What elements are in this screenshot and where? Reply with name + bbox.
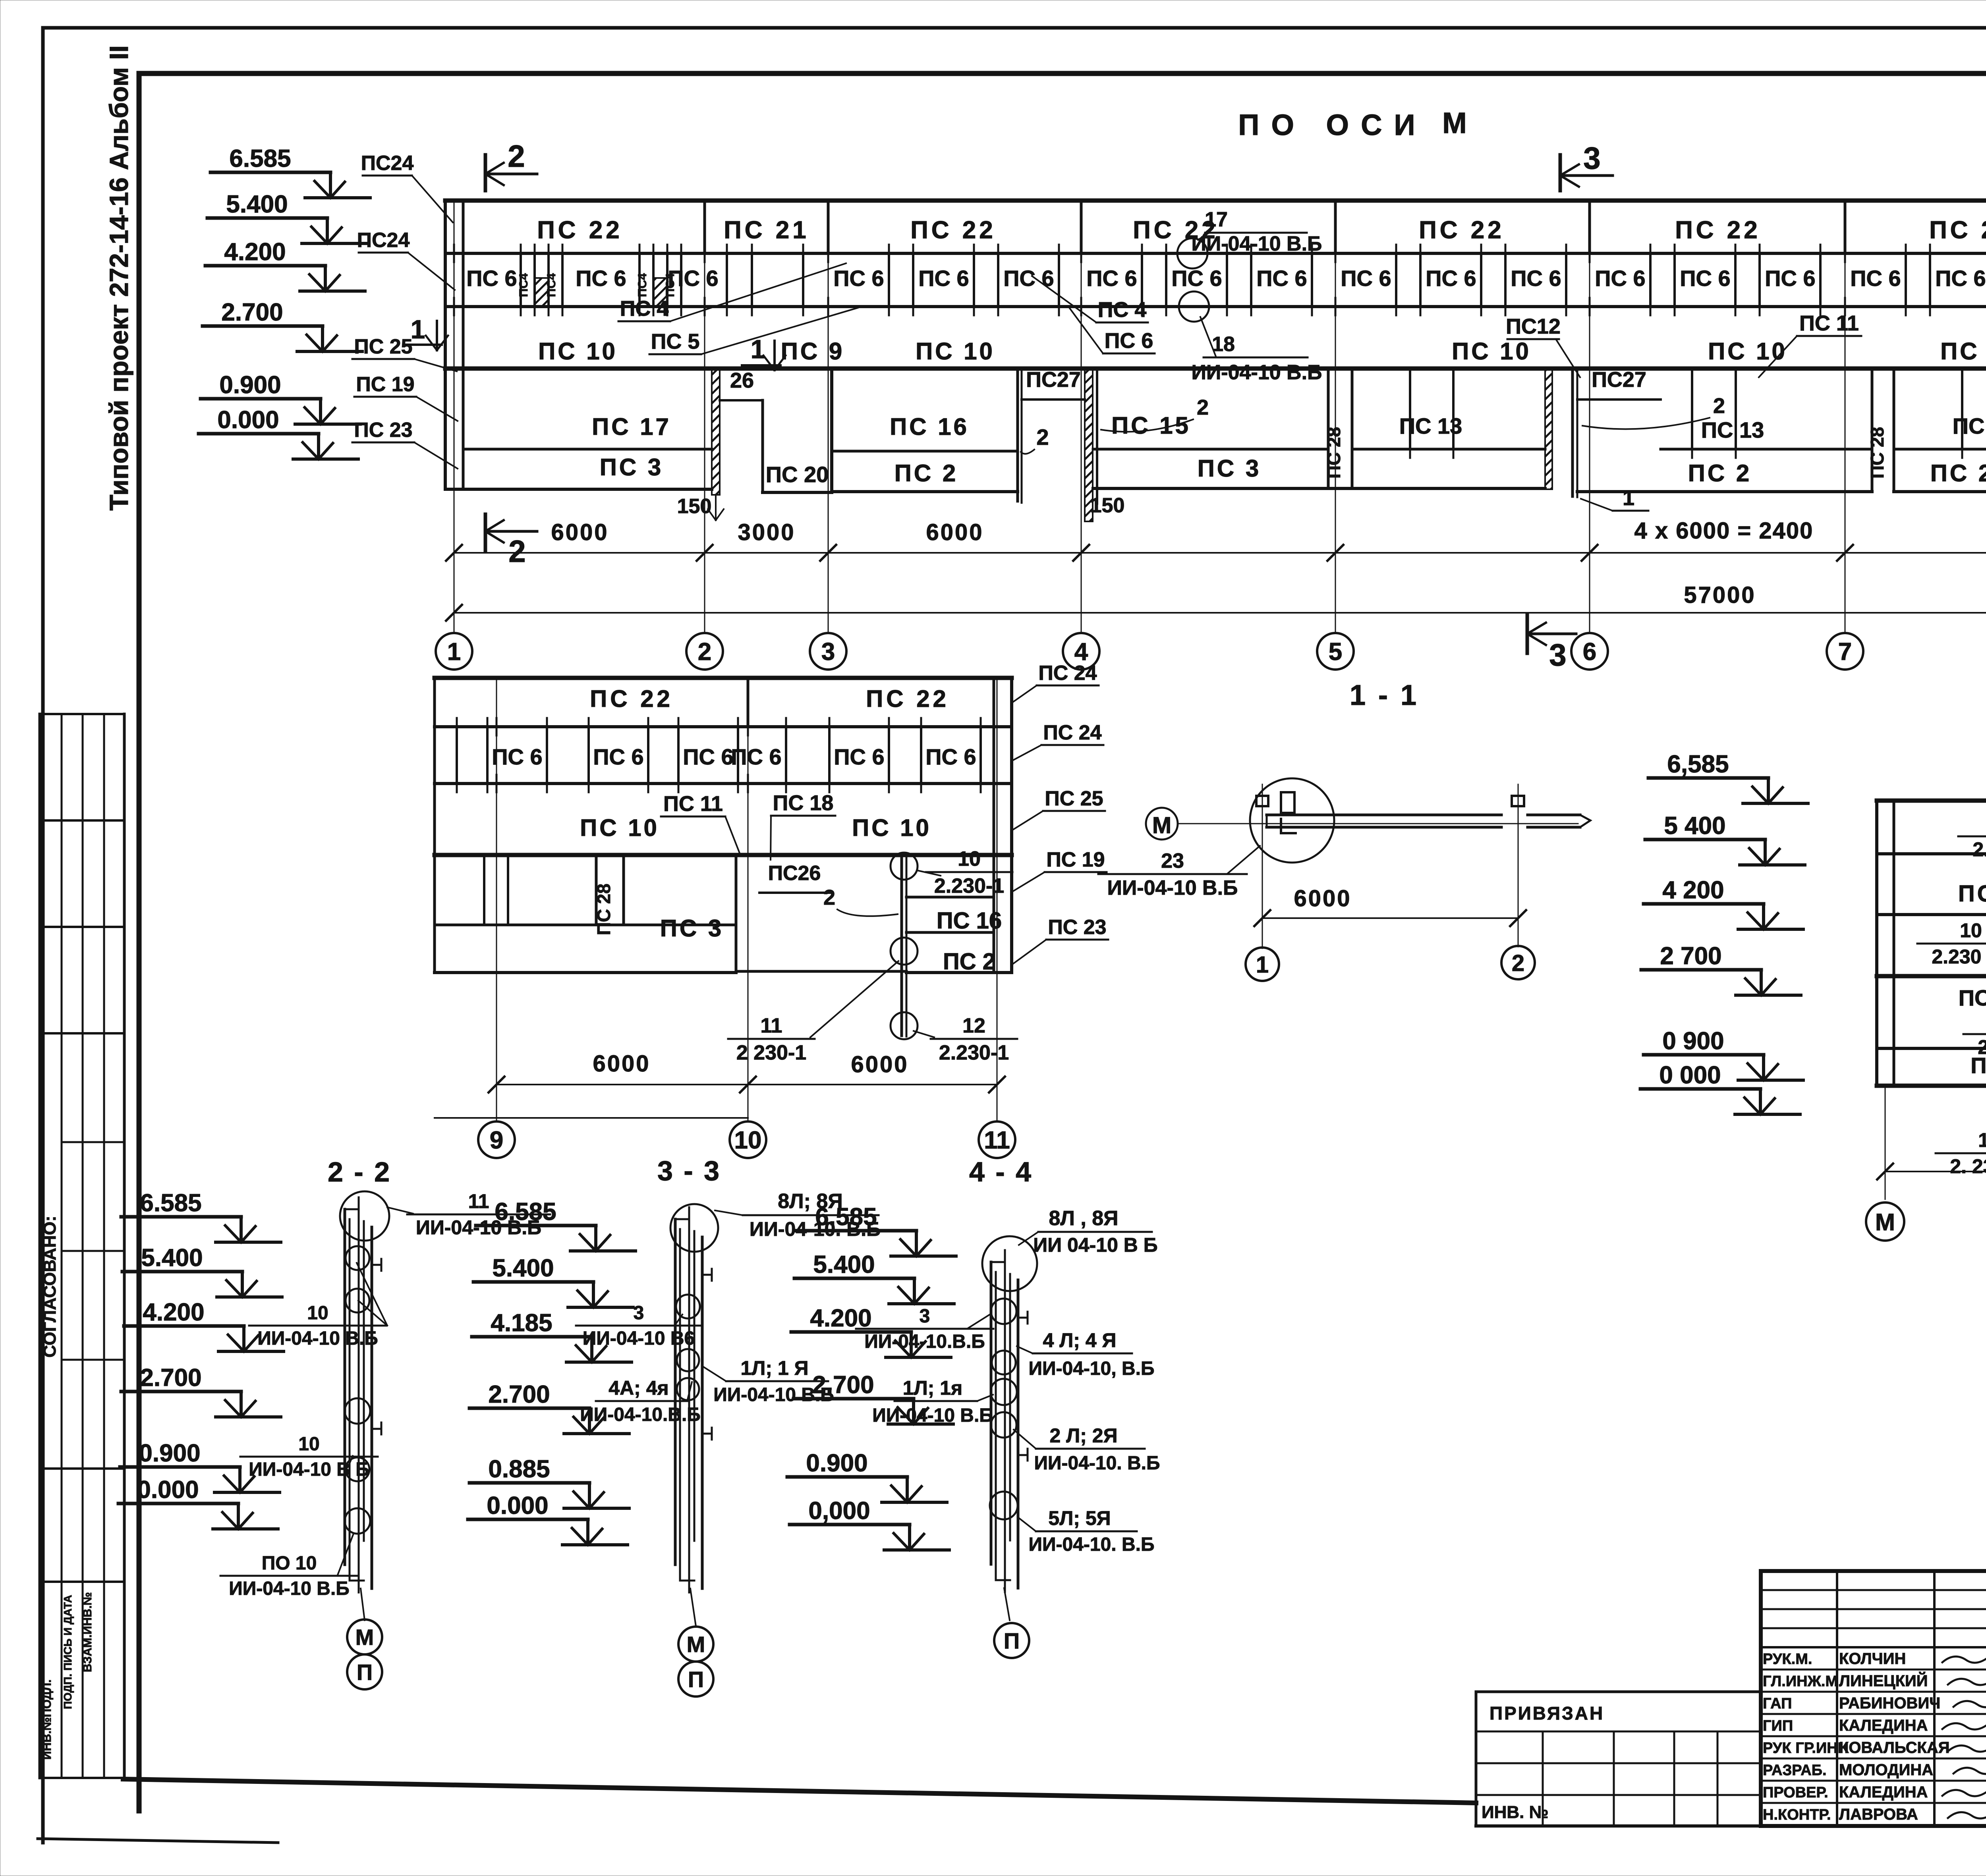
svg-text:Н.КОНТР.: Н.КОНТР. (1763, 1807, 1831, 1823)
svg-text:10: 10 (958, 847, 981, 870)
svg-text:ПС 6: ПС 6 (1426, 266, 1476, 291)
svg-text:17: 17 (1205, 208, 1228, 231)
svg-text:ПС 7: ПС 7 (1958, 881, 1986, 907)
svg-text:5.400: 5.400 (141, 1244, 203, 1272)
title block main frame (1761, 1571, 1986, 1826)
svg-text:ПС 2: ПС 2 (1930, 460, 1986, 486)
inner drawing frame (139, 71, 1986, 76)
svg-text:2: 2 (1036, 425, 1049, 450)
svg-text:ПС 6: ПС 6 (1341, 266, 1391, 291)
по оси 11 dimension line (1885, 1171, 1986, 1172)
svg-text:6,585: 6,585 (1667, 751, 1729, 778)
svg-text:М: М (1152, 813, 1171, 838)
detail circle section 1-1 (1250, 778, 1334, 863)
middle elevation dimension line (496, 1084, 997, 1085)
svg-text:2.700: 2.700 (140, 1364, 201, 1392)
svg-text:1Л; 1я: 1Л; 1я (903, 1377, 962, 1399)
panel cross squares at axes section 1-1 (1256, 796, 1268, 806)
svg-text:4.200: 4.200 (143, 1299, 204, 1326)
svg-text:1: 1 (1623, 486, 1634, 510)
svg-text:2.230 - 1: 2.230 - 1 (1932, 946, 1986, 968)
svg-text:9: 9 (490, 1127, 503, 1154)
section 3-3 big joint circle (670, 1204, 718, 1252)
svg-text:ПС 3: ПС 3 (1198, 455, 1262, 482)
svg-text:ПС 10: ПС 10 (1452, 338, 1531, 365)
svg-text:ПС 21: ПС 21 (724, 216, 809, 244)
pilaster ПС28 middle elevation (595, 855, 598, 925)
svg-text:3: 3 (1549, 637, 1566, 672)
axis grid thin lines (454, 201, 455, 632)
section mark 2 bottom (484, 514, 487, 551)
section 4-4 axis circle П (1004, 1588, 1010, 1620)
panel edge 2 right of axis 4 door (1096, 369, 1098, 504)
svg-text:ПС 6: ПС 6 (925, 744, 976, 769)
svg-text:ИИ-04-10 В.Б: ИИ-04-10 В.Б (1192, 361, 1322, 384)
svg-text:М: М (1442, 106, 1467, 139)
middle bottom zone: pair of edges left (483, 855, 485, 925)
svg-text:ПС 6: ПС 6 (466, 266, 517, 291)
svg-text:ГЛ.ИНЖ.М: ГЛ.ИНЖ.М (1763, 1673, 1838, 1690)
svg-text:ПС 6: ПС 6 (918, 266, 969, 291)
section 3-3 axis circles М П (690, 1588, 696, 1626)
svg-text:ПС 15: ПС 15 (1959, 985, 1986, 1010)
svg-text:ПС 10: ПС 10 (580, 814, 659, 841)
svg-text:ПС 19: ПС 19 (356, 373, 414, 396)
svg-text:6.585: 6.585 (140, 1189, 201, 1217)
svg-text:0.900: 0.900 (139, 1440, 200, 1467)
left end wall column (444, 201, 447, 489)
svg-text:0.000: 0.000 (217, 406, 279, 434)
middle elevation right end wall column (993, 678, 995, 973)
svg-text:ПС 10: ПС 10 (852, 814, 931, 841)
svg-text:6.585: 6.585 (815, 1203, 877, 1231)
svg-text:1: 1 (447, 638, 461, 666)
title block signature columns (1836, 1571, 1838, 1826)
svg-text:0,000: 0,000 (808, 1497, 870, 1525)
svg-text:ПС24: ПС24 (357, 229, 410, 252)
svg-text:ПС 6: ПС 6 (1086, 266, 1137, 291)
svg-text:150: 150 (677, 495, 712, 518)
svg-text:ПС 11: ПС 11 (663, 792, 723, 816)
svg-text:5 400: 5 400 (1664, 812, 1725, 840)
svg-text:ИИ-04-10 В.Б: ИИ-04-10 В.Б (229, 1578, 350, 1599)
section 2-2 axis circles М П (361, 1588, 365, 1620)
svg-text:ПРОВЕР.: ПРОВЕР. (1763, 1784, 1828, 1801)
svg-text:КАЛЕДИНА: КАЛЕДИНА (1839, 1783, 1928, 1801)
svg-text:0.000: 0.000 (137, 1476, 199, 1504)
svg-text:КОВАЛЬСКАЯ: КОВАЛЬСКАЯ (1839, 1739, 1950, 1756)
weld callout 17 ИИ-04-10 В.Б (1177, 238, 1207, 268)
svg-text:2.700: 2.700 (488, 1381, 550, 1408)
svg-text:П: П (1004, 1628, 1020, 1653)
corner panel pieces in detail circle (1281, 792, 1294, 813)
svg-text:ИИ-04-10 В.Б: ИИ-04-10 В.Б (1107, 876, 1238, 899)
svg-text:КАЛЕДИНА: КАЛЕДИНА (1839, 1717, 1928, 1734)
panels ПС15 and ПС3 (bay 4-5) (1093, 448, 1328, 451)
svg-text:6000: 6000 (851, 1052, 908, 1077)
section 4-4 wall (990, 1262, 993, 1564)
weld callout 18 ИИ-04-10 В.Б (1179, 291, 1209, 322)
svg-text:ПО 10: ПО 10 (262, 1553, 317, 1574)
middle elevation horizontal lines (435, 676, 1012, 680)
svg-text:ПС 2: ПС 2 (1688, 460, 1752, 486)
dimension line 1 of по оси М (454, 552, 1986, 554)
svg-text:2: 2 (1713, 394, 1725, 418)
svg-text:3 - 3: 3 - 3 (657, 1155, 721, 1186)
по оси 11 end columns (1875, 801, 1878, 1086)
title block signature rows (1761, 1669, 1986, 1671)
panel ПС17 with ПС3 below (bay 1-2) (463, 448, 712, 451)
svg-text:2. 230 -1: 2. 230 -1 (1950, 1155, 1986, 1177)
svg-text:4 Л; 4 Я: 4 Л; 4 Я (1043, 1329, 1117, 1351)
door jamb hatch right of axis 2 (712, 369, 720, 495)
svg-text:ПО ОСИ: ПО ОСИ (1238, 108, 1427, 141)
svg-text:2: 2 (698, 638, 711, 666)
section 2-2 big joint circle (340, 1191, 389, 1241)
middle ПС3 band (435, 924, 736, 926)
svg-text:5.400: 5.400 (492, 1255, 554, 1282)
svg-text:М: М (1875, 1209, 1895, 1235)
svg-text:2 700: 2 700 (1660, 942, 1721, 970)
привязан box (1476, 1691, 1761, 1693)
svg-text:ПС 6: ПС 6 (1595, 266, 1645, 291)
svg-text:ПС 10: ПС 10 (1708, 338, 1787, 365)
svg-text:ПС 13: ПС 13 (1701, 417, 1764, 442)
middle panels ПС16 ПС2 (906, 896, 994, 899)
door hatch left of axis 6 (1545, 369, 1552, 489)
svg-text:ПС 19: ПС 19 (1046, 848, 1105, 871)
svg-text:П: П (688, 1667, 704, 1692)
svg-text:ПС 10: ПС 10 (1940, 338, 1986, 365)
svg-text:1: 1 (411, 315, 425, 344)
svg-text:МОЛОДИНА: МОЛОДИНА (1839, 1761, 1933, 1779)
svg-text:ПС 6: ПС 6 (1935, 266, 1986, 291)
svg-text:ПС 13: ПС 13 (1953, 413, 1986, 438)
panels ПС13 and ПС2 (bay 6-7) (1661, 448, 1872, 451)
section mark 2 top (484, 155, 487, 191)
svg-text:0.885: 0.885 (488, 1455, 550, 1483)
main horizontal lines of elevation по оси М (445, 199, 1986, 203)
svg-text:ИИ 04-10 В Б: ИИ 04-10 В Б (1033, 1234, 1157, 1256)
svg-text:12: 12 (962, 1014, 985, 1037)
svg-text:ПС 22: ПС 22 (590, 685, 673, 712)
svg-text:10: 10 (298, 1434, 319, 1455)
svg-text:ИИ-04-10 В6: ИИ-04-10 В6 (583, 1328, 695, 1349)
svg-text:2 - 2: 2 - 2 (328, 1156, 391, 1187)
pilaster ПС28 before axis 7 (1871, 369, 1874, 492)
svg-text:4 x 6000 = 2400: 4 x 6000 = 2400 (1634, 518, 1814, 544)
svg-text:ЛИНЕЦКИЙ: ЛИНЕЦКИЙ (1839, 1671, 1928, 1690)
svg-text:ПС 16: ПС 16 (890, 413, 969, 440)
svg-text:ПС 23: ПС 23 (1048, 916, 1106, 939)
svg-text:1Л; 1 Я: 1Л; 1 Я (740, 1357, 808, 1379)
svg-text:3: 3 (634, 1303, 644, 1324)
svg-text:10: 10 (307, 1303, 328, 1324)
svg-text:11: 11 (761, 1014, 782, 1037)
svg-text:2: 2 (508, 139, 525, 174)
svg-text:6.585: 6.585 (495, 1198, 556, 1226)
svg-text:ПС 22: ПС 22 (1675, 216, 1761, 244)
page outer border (43, 26, 1986, 30)
svg-text:6000: 6000 (926, 519, 983, 545)
svg-text:ПС 3: ПС 3 (600, 454, 664, 481)
svg-text:ПС 10: ПС 10 (538, 338, 618, 365)
axis circles 1-9 (436, 633, 472, 670)
svg-text:ПС 23: ПС 23 (354, 419, 412, 442)
svg-text:РУК.М.: РУК.М. (1763, 1651, 1812, 1668)
middle elevation axis thin lines (496, 678, 497, 1120)
svg-text:ПС 22: ПС 22 (910, 216, 996, 244)
svg-text:1 - 1: 1 - 1 (1350, 679, 1419, 711)
svg-text:ПС27: ПС27 (1592, 368, 1646, 392)
section mark 3 top (1559, 155, 1562, 191)
svg-text:ПС 6: ПС 6 (1511, 266, 1561, 291)
door hatch at axis 4 (1085, 369, 1093, 521)
svg-text:ИИ-04-10 В.Б: ИИ-04-10 В.Б (1192, 232, 1322, 255)
svg-text:5.400: 5.400 (226, 191, 288, 218)
svg-text:ПС 6: ПС 6 (1850, 266, 1901, 291)
svg-text:2.230-1: 2.230-1 (934, 874, 1004, 897)
svg-text:ПС 6: ПС 6 (1256, 266, 1307, 291)
title block top grid rows (1761, 1589, 1986, 1591)
svg-text:ИИ-04-10 В.Б: ИИ-04-10 В.Б (872, 1405, 993, 1426)
svg-text:4 200: 4 200 (1662, 876, 1724, 904)
svg-text:ПС 6: ПС 6 (1680, 266, 1730, 291)
svg-text:0.900: 0.900 (219, 371, 281, 399)
svg-text:ИНВ. №: ИНВ. № (1482, 1803, 1549, 1822)
svg-text:М: М (355, 1625, 374, 1650)
svg-text:ПС 6: ПС 6 (593, 744, 643, 769)
svg-text:РАБИНОВИЧ: РАБИНОВИЧ (1839, 1695, 1940, 1712)
svg-text:ПС 24: ПС 24 (1038, 662, 1097, 685)
middle row B panels ПС6 (456, 727, 458, 784)
svg-text:ПС 22: ПС 22 (866, 685, 949, 712)
svg-text:ПС 15: ПС 15 (1111, 412, 1191, 439)
svg-text:10: 10 (1960, 919, 1982, 942)
wall panel bar section 1-1 (1267, 814, 1501, 816)
svg-text:2: 2 (1512, 950, 1524, 976)
svg-text:ПС 13: ПС 13 (1399, 413, 1462, 438)
svg-text:3000: 3000 (738, 519, 795, 545)
axis 3 wall edge (830, 369, 833, 492)
svg-text:ПС4: ПС4 (517, 273, 530, 297)
svg-text:ПОДП. ПИСЬ И ДАТА: ПОДП. ПИСЬ И ДАТА (62, 1595, 74, 1709)
svg-text:12: 12 (1978, 1129, 1986, 1151)
svg-text:ПС 1: ПС 1 (1971, 1053, 1986, 1078)
svg-text:ГАП: ГАП (1763, 1695, 1792, 1712)
svg-text:ПС 4: ПС 4 (620, 297, 669, 320)
svg-text:6.585: 6.585 (229, 145, 291, 172)
row B joint ticks (520, 245, 522, 262)
svg-text:ПС 6: ПС 6 (1765, 266, 1815, 291)
svg-text:ПС 28: ПС 28 (1867, 427, 1887, 479)
svg-text:ИИ-04-10. В.Б: ИИ-04-10. В.Б (1029, 1534, 1155, 1555)
svg-text:ПС 10: ПС 10 (916, 338, 995, 365)
svg-text:11: 11 (984, 1127, 1010, 1154)
svg-text:2.700: 2.700 (812, 1371, 874, 1399)
svg-text:ПС 22: ПС 22 (1419, 216, 1505, 244)
section 3-3 wall (674, 1219, 677, 1565)
svg-text:ПС 16: ПС 16 (937, 908, 1002, 934)
svg-text:ПС 6: ПС 6 (731, 744, 781, 769)
svg-text:ПС 24: ПС 24 (1043, 721, 1101, 744)
svg-text:ПС 6: ПС 6 (1171, 266, 1222, 291)
svg-text:РАЗРАБ.: РАЗРАБ. (1763, 1762, 1827, 1779)
svg-text:ПС 11: ПС 11 (1799, 311, 1859, 335)
svg-text:ПС27: ПС27 (1026, 368, 1081, 392)
dimension line 2 total 57000 (454, 612, 1986, 614)
panel edge 2 with leader (left of axis 4) (1016, 369, 1019, 501)
pilaster ПС28 at axis 5 (1327, 369, 1330, 488)
window ПС13 and ПС2 (bay 7-8) (1894, 448, 1986, 451)
svg-text:ПС 6: ПС 6 (833, 266, 884, 291)
svg-text:0.900: 0.900 (806, 1449, 867, 1477)
svg-text:ПС 25: ПС 25 (1045, 787, 1103, 810)
svg-text:ПС24: ПС24 (361, 152, 414, 175)
middle row A labels ПС22 (747, 678, 750, 727)
svg-text:ПС 6: ПС 6 (834, 744, 884, 769)
svg-text:ИИ-04-10.В.Б: ИИ-04-10.В.Б (580, 1404, 701, 1425)
svg-text:РУК ГР.ИНН: РУК ГР.ИНН (1763, 1740, 1849, 1756)
svg-text:5.400: 5.400 (813, 1251, 875, 1278)
svg-text:ПС 18: ПС 18 (773, 791, 834, 815)
svg-text:10: 10 (734, 1127, 762, 1154)
svg-text:5Л; 5Я: 5Л; 5Я (1048, 1507, 1111, 1529)
svg-text:ПС 9: ПС 9 (781, 338, 845, 365)
svg-text:4.185: 4.185 (491, 1309, 552, 1337)
svg-text:8Л , 8Я: 8Л , 8Я (1049, 1207, 1118, 1230)
svg-text:ПС 2: ПС 2 (943, 949, 995, 975)
svg-text:ИИ-04-10.В.Б: ИИ-04-10.В.Б (864, 1331, 985, 1352)
svg-text:ИИ-04-10 В Б: ИИ-04-10 В Б (249, 1459, 369, 1480)
svg-text:4 - 4: 4 - 4 (969, 1156, 1033, 1187)
svg-text:2: 2 (1197, 396, 1209, 419)
svg-text:6: 6 (1583, 638, 1596, 666)
svg-text:ПС 6: ПС 6 (492, 744, 542, 769)
middle panel edge with weld circles (900, 855, 903, 1036)
svg-text:23: 23 (1161, 849, 1184, 872)
svg-text:2. 230- 1: 2. 230- 1 (1972, 838, 1986, 861)
svg-text:М: М (687, 1632, 705, 1657)
svg-text:18: 18 (1212, 333, 1235, 356)
svg-text:ПС 6: ПС 6 (1105, 329, 1153, 353)
row A panel joints at axes (703, 201, 706, 253)
row B small panels ПС6 with joints and ticks (520, 253, 522, 307)
svg-text:ПС 25: ПС 25 (354, 335, 412, 358)
svg-text:26: 26 (730, 369, 754, 392)
row B hatched narrow panels ПС4 (535, 278, 549, 307)
svg-text:ПС 22: ПС 22 (537, 216, 623, 244)
svg-text:4А; 4я: 4А; 4я (609, 1377, 668, 1399)
svg-text:6000: 6000 (551, 519, 609, 545)
svg-text:3: 3 (1583, 141, 1600, 176)
svg-text:2: 2 (508, 534, 525, 569)
svg-text:ПРИВЯЗАН: ПРИВЯЗАН (1489, 1703, 1604, 1724)
svg-text:6000: 6000 (593, 1051, 650, 1077)
svg-text:0 900: 0 900 (1662, 1027, 1724, 1055)
svg-text:5: 5 (1329, 638, 1342, 666)
svg-text:2 230-1: 2 230-1 (736, 1041, 806, 1064)
svg-text:ПС4: ПС4 (636, 273, 649, 297)
svg-text:2: 2 (823, 886, 835, 909)
left margin approval stamp table (39, 714, 41, 1778)
svg-text:2 Л; 2Я: 2 Л; 2Я (1049, 1424, 1117, 1447)
axis circles 1 2 section 1-1 (1246, 948, 1279, 981)
svg-text:СОГЛАСОВАНО:: СОГЛАСОВАНО: (40, 1216, 60, 1357)
svg-text:ПС 28: ПС 28 (593, 884, 614, 935)
svg-text:150: 150 (1090, 494, 1125, 517)
axis М circle section 1-1 (1146, 808, 1178, 840)
svg-text:6000: 6000 (1294, 886, 1351, 911)
svg-text:ПС 20: ПС 20 (766, 462, 829, 487)
svg-text:ПС 28: ПС 28 (1323, 427, 1344, 479)
section 2-2 wall (344, 1209, 346, 1565)
svg-text:ИИ-04-10. В.Б: ИИ-04-10. В.Б (1034, 1453, 1160, 1474)
middle elevation left edge (433, 678, 436, 973)
svg-text:ПС 4: ПС 4 (1098, 298, 1147, 322)
svg-text:0 000: 0 000 (1659, 1062, 1721, 1089)
svg-text:57000: 57000 (1684, 582, 1756, 608)
svg-text:КОЛЧИН: КОЛЧИН (1839, 1650, 1906, 1668)
svg-text:ПС4: ПС4 (664, 273, 677, 297)
svg-text:2.230-1: 2.230-1 (939, 1041, 1009, 1064)
svg-text:ИИ-04-10, В.Б: ИИ-04-10, В.Б (1029, 1358, 1155, 1379)
svg-text:3: 3 (821, 638, 835, 666)
svg-text:ПС26: ПС26 (768, 862, 821, 885)
по оси 11 horizontal lines (1877, 799, 1986, 803)
svg-text:ПС 22: ПС 22 (1929, 216, 1986, 244)
svg-text:11: 11 (468, 1190, 489, 1212)
panel edge 1 leader at axis 6 (1571, 369, 1574, 496)
svg-text:ПС 2: ПС 2 (894, 460, 958, 486)
middle axis circles 9 10 11 (478, 1121, 515, 1158)
svg-text:0.000: 0.000 (487, 1492, 548, 1519)
svg-text:4.200: 4.200 (224, 238, 286, 266)
svg-text:ПС 17: ПС 17 (592, 413, 671, 440)
svg-text:Типовой проект 272-14-16: Типовой проект 272-14-16 Альбом II (104, 45, 133, 511)
svg-text:ЛАВРОВА: ЛАВРОВА (1839, 1806, 1918, 1823)
svg-text:ВЗАМ.ИНВ.№: ВЗАМ.ИНВ.№ (81, 1592, 94, 1672)
svg-text:ПС 6: ПС 6 (576, 266, 626, 291)
svg-text:ПС 3: ПС 3 (660, 915, 724, 942)
svg-text:ПС4: ПС4 (545, 273, 558, 297)
svg-text:ПС 6: ПС 6 (683, 744, 733, 769)
svg-text:1: 1 (1256, 952, 1269, 978)
svg-text:7: 7 (1838, 638, 1852, 666)
svg-text:ПС 5: ПС 5 (651, 330, 700, 353)
section 4-4 big joint circle (982, 1236, 1037, 1291)
svg-text:П: П (357, 1660, 373, 1685)
svg-text:ИНВ.№ПОДЛ.: ИНВ.№ПОДЛ. (41, 1679, 54, 1760)
section mark 3 bottom (1526, 615, 1529, 653)
svg-text:ГИП: ГИП (1763, 1718, 1793, 1734)
svg-text:2.700: 2.700 (221, 299, 283, 326)
по оси 11 axis circles М Н П (1866, 1202, 1904, 1241)
svg-text:3: 3 (920, 1306, 930, 1327)
svg-text:ПС12: ПС12 (1506, 315, 1561, 338)
svg-text:ИИ-04-10 В.Б: ИИ-04-10 В.Б (257, 1328, 378, 1349)
window and panel ПС13 (bay 5-6) (1352, 448, 1545, 451)
middle door recess at axis 10 (735, 855, 738, 971)
